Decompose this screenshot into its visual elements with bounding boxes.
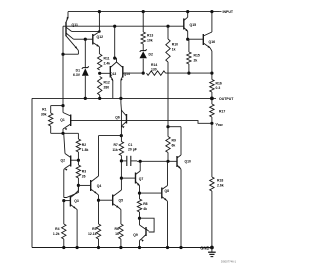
- svg-text:Q5: Q5: [119, 199, 124, 203]
- wire bottom ground rail: [32, 247, 212, 249]
- wire Q14 base to D2: [123, 72, 143, 74]
- svg-text:30k: 30k: [41, 113, 47, 117]
- wire R1 bottom: [51, 132, 79, 134]
- svg-text:Q14: Q14: [124, 72, 130, 76]
- wire right output rail lower: [211, 191, 213, 248]
- svg-text:Q4: Q4: [97, 184, 102, 188]
- node INPUT: [219, 10, 234, 14]
- svg-text:Q11: Q11: [72, 23, 78, 27]
- resistor R12: [98, 77, 110, 99]
- svg-text:R4: R4: [55, 227, 59, 231]
- junction R3 bottom: [77, 184, 80, 187]
- resistor R7: [112, 142, 123, 156]
- resistor R4: [53, 201, 66, 248]
- junction Q1 emitter / R1 bottom: [61, 132, 64, 135]
- junction Q12 base / D1: [84, 38, 87, 41]
- junction R5 bottom: [97, 246, 100, 249]
- junction Q10 emitter bottom: [179, 246, 182, 249]
- svg-text:12.1k: 12.1k: [88, 232, 97, 236]
- svg-text:280: 280: [104, 86, 110, 90]
- node VREF: [210, 122, 223, 128]
- svg-text:Q7: Q7: [139, 177, 144, 181]
- svg-text:GND: GND: [200, 245, 209, 250]
- svg-text:10k: 10k: [147, 39, 153, 43]
- junction R13 top on input rail: [142, 10, 145, 13]
- junction Q14 emitter on mid rail: [119, 97, 122, 100]
- wire R11-R12 tap to Q13 base: [100, 72, 111, 74]
- junction Q7 base: [120, 177, 123, 180]
- wire Q10 collector loop: [168, 127, 181, 154]
- resistor R18: [210, 177, 224, 191]
- junction Q15 emitter / Q16 base: [186, 38, 189, 41]
- svg-text:R7: R7: [113, 143, 117, 147]
- transistor Q4: [91, 136, 102, 248]
- svg-text:0.3: 0.3: [216, 86, 221, 90]
- resistor R13: [141, 12, 153, 44]
- svg-text:Q12: Q12: [97, 35, 104, 39]
- wire R1 top: [51, 105, 63, 107]
- wire second rail (Q11 base to Q15 base): [63, 25, 184, 27]
- transistor Q13: [110, 58, 117, 98]
- svg-text:6.3V: 6.3V: [73, 73, 81, 77]
- svg-text:1.2k: 1.2k: [53, 232, 60, 236]
- wire Q5 base: [99, 199, 113, 201]
- svg-text:26: 26: [82, 175, 86, 179]
- junction C1 left tap: [120, 159, 123, 162]
- svg-text:R12: R12: [104, 81, 110, 85]
- junction D2 anode: [142, 72, 145, 75]
- wire left rail down: [31, 98, 33, 247]
- resistor R14: [147, 63, 166, 75]
- wire center column lower: [120, 156, 122, 191]
- svg-text:R17: R17: [219, 110, 225, 114]
- junction Q5 emitter bottom: [119, 246, 122, 249]
- wire Q15 emitter to Q16 base: [188, 38, 204, 40]
- svg-text:20 pF: 20 pF: [128, 147, 137, 151]
- svg-text:R2: R2: [82, 143, 86, 147]
- svg-text:2.4k: 2.4k: [104, 62, 111, 66]
- junction Q7 emitter / Q8 base: [138, 192, 141, 195]
- junction R10 top: [166, 25, 169, 28]
- junction Q16 emitter node: [210, 72, 213, 75]
- wire base line Q1-Q6-Vref: [71, 121, 212, 124]
- svg-text:R8: R8: [143, 202, 147, 206]
- wire mid rail (node A): [32, 97, 212, 99]
- transistor Q8: [162, 161, 169, 247]
- junction R9 top: [166, 125, 169, 128]
- resistor R15: [187, 39, 200, 73]
- junction R8 bottom: [138, 217, 141, 220]
- svg-text:Q15: Q15: [190, 23, 197, 27]
- svg-text:R1: R1: [42, 108, 46, 112]
- junction R2/R3 Q2 base: [77, 159, 80, 162]
- svg-text:C1: C1: [128, 143, 132, 147]
- junction R4 bottom: [62, 246, 65, 249]
- junction Q12 collector on top rail: [98, 10, 101, 13]
- svg-text:11k: 11k: [112, 148, 118, 152]
- junction Q15 collector on input rail: [186, 10, 189, 13]
- label document number: [221, 260, 237, 264]
- junction Q9 emitter bottom: [138, 246, 141, 249]
- resistor R1: [41, 106, 53, 134]
- svg-text:R18: R18: [217, 179, 223, 183]
- junction R9 bottom tap: [166, 160, 169, 163]
- svg-text:R10: R10: [172, 43, 178, 47]
- svg-text:INPUT: INPUT: [223, 10, 234, 14]
- svg-text:Q2: Q2: [61, 159, 66, 163]
- junction OUTPUT node: [210, 97, 214, 101]
- transistor Q7: [136, 161, 144, 193]
- junction R11/R12: [98, 72, 101, 75]
- svg-text:6k: 6k: [172, 144, 176, 148]
- svg-text:Q1: Q1: [60, 118, 65, 122]
- resistor R5: [88, 224, 101, 239]
- transistor Q16: [203, 32, 215, 51]
- svg-text:R5: R5: [92, 227, 96, 231]
- svg-text:1.8k: 1.8k: [82, 148, 89, 152]
- svg-text:4k: 4k: [143, 207, 147, 211]
- transistor Q9 diode-connected: [133, 218, 154, 247]
- junction R1 top / left column: [61, 104, 64, 107]
- junction Q7 collector tap: [139, 160, 142, 163]
- junction Q3 emitter bottom: [76, 246, 79, 249]
- zener diode D2: [140, 44, 153, 73]
- junction Q16 collector on input rail: [210, 10, 213, 13]
- wire R3 bottom to Q2 emitter line: [64, 185, 79, 197]
- transistor Q6: [115, 110, 126, 128]
- transistor Q15: [184, 12, 196, 40]
- node OUTPUT: [212, 97, 234, 101]
- svg-text:2k: 2k: [194, 59, 198, 63]
- svg-text:Q16: Q16: [209, 40, 216, 44]
- wire Q4 base: [78, 184, 90, 186]
- svg-text:DS007746-1: DS007746-1: [221, 260, 237, 264]
- transistor Q5: [113, 190, 123, 248]
- junction Q8 emitter bottom: [166, 246, 169, 249]
- svg-text:R13: R13: [147, 34, 153, 38]
- wire center column upper: [120, 98, 123, 141]
- resistor R8: [137, 193, 147, 218]
- junction R12 bottom on mid rail: [98, 97, 101, 100]
- zener diode D1: [73, 39, 89, 98]
- svg-text:R3: R3: [82, 170, 86, 174]
- wire Q11 emitter2 to left column: [61, 53, 78, 56]
- wire top INPUT rail: [68, 11, 219, 13]
- junction Q5 base tap: [97, 199, 100, 202]
- wire right output rail R17 segment: [211, 117, 213, 177]
- wire right output rail R16 segment: [211, 51, 213, 104]
- svg-text:R16: R16: [216, 82, 222, 86]
- svg-text:Q10: Q10: [185, 159, 192, 163]
- svg-text:1k: 1k: [172, 48, 176, 52]
- svg-text:R6: R6: [115, 227, 119, 231]
- svg-text:1k: 1k: [115, 232, 119, 236]
- resistor R9: [166, 127, 176, 162]
- resistor R2: [76, 133, 88, 160]
- junction Q4 collector wire on column: [120, 134, 123, 137]
- svg-text:D1: D1: [76, 68, 80, 72]
- svg-text:Q8: Q8: [165, 189, 170, 193]
- transistor Q11: [66, 12, 99, 55]
- wire Q8 base: [140, 192, 162, 194]
- svg-text:Q3: Q3: [74, 199, 79, 203]
- resistor R16: [210, 80, 222, 93]
- transistor Q3: [64, 185, 79, 247]
- transistor Q10: [177, 154, 191, 248]
- resistor R10: [166, 26, 178, 62]
- wire right output rail upper: [211, 12, 213, 32]
- junction D1 anode on mid rail: [84, 97, 87, 100]
- svg-text:R14: R14: [151, 63, 157, 67]
- wire Q7 base: [121, 177, 135, 179]
- wire Q4 collector top: [99, 135, 122, 137]
- node GND: [200, 245, 214, 250]
- junction R15 bottom: [187, 72, 190, 75]
- svg-text:R9: R9: [172, 139, 176, 143]
- wire R10 bottom down: [167, 62, 169, 127]
- capacitor C1: [121, 143, 137, 166]
- wire C1 to Q10 base: [137, 160, 177, 162]
- svg-text:OUTPUT: OUTPUT: [219, 97, 234, 101]
- svg-text:R11: R11: [104, 57, 110, 61]
- wire left column x63: [62, 26, 64, 105]
- transistor Q1: [60, 106, 70, 134]
- wire R14 to R15 node: [166, 72, 212, 74]
- resistor R3: [76, 160, 86, 185]
- transistor Q2: [61, 135, 79, 198]
- svg-text:Q6: Q6: [115, 116, 120, 120]
- transistor Q14: [117, 62, 130, 98]
- resistor R6: [115, 224, 124, 239]
- ground: [208, 248, 216, 257]
- wire collector stem Q13Q14: [113, 25, 116, 60]
- svg-text:D2: D2: [149, 53, 153, 57]
- junction Q11 collector1: [98, 30, 101, 33]
- junction Q3 base: [62, 199, 65, 202]
- resistor R17: [210, 104, 226, 117]
- svg-text:R15: R15: [194, 54, 200, 58]
- svg-text:Q13: Q13: [110, 72, 116, 76]
- svg-text:Q9: Q9: [133, 233, 138, 237]
- resistor R11: [98, 54, 111, 70]
- svg-text:2.6k: 2.6k: [217, 184, 224, 188]
- transistor Q12: [85, 12, 103, 54]
